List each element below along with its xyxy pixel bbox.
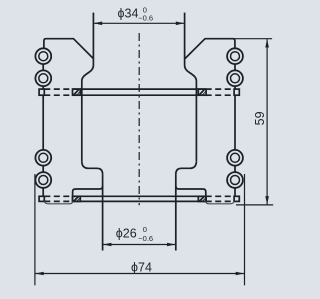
lower neck right edge + ext line for dim φ26 [175,174,177,250]
eyelet bottom-right lower [227,172,243,188]
wire: neck right edge + ext line for dim φ34 [184,13,186,66]
terminal lead mid-left [42,95,44,196]
clamp ear right [185,39,235,59]
lower neck left edge + ext line for dim φ26 [102,174,104,250]
top flange lower line solid [73,94,206,96]
top flange upper line hidden right [206,88,234,90]
svg-text:−0.6: −0.6 [138,234,153,243]
top flange lower line hidden right [206,94,234,96]
bottom flange lower line hidden left [44,200,72,202]
eyelet bottom-left lower [35,172,51,188]
body-to-neck step right [176,161,197,174]
top flange upper line hidden left [44,88,72,90]
terminal lead top-right [234,64,236,89]
wire: neck left edge + ext line for dim φ34 [92,13,94,66]
clamp step edge bottom-right [176,186,206,202]
clamp section hatch top-left [73,89,81,95]
clamp section hatch bottom-right [198,196,206,201]
body-to-neck step left [82,161,103,174]
svg-text:0: 0 [143,225,147,234]
neck S-curve right [185,66,197,82]
top flange lower line hidden left [44,94,72,96]
dimension φ74 extension line right [244,174,246,285]
clamp under-strap right [206,201,234,203]
eyelet top-right lower [227,70,243,86]
body left edge [81,81,83,161]
svg-text:ϕ74: ϕ74 [131,260,152,274]
terminal lead top-left [42,64,44,89]
clamp tab box top-left [39,89,44,95]
bottom flange upper line solid [73,195,206,197]
dimension φ74 extension line left [34,174,36,285]
dimension φ34 line with arrows [93,22,184,26]
bottom flange lower line solid [73,200,206,202]
clamp tab box bottom-right [234,196,239,201]
clamp tab box bottom-left [39,196,44,201]
clamp ear left [44,39,94,59]
clamp under-strap left [44,201,72,203]
eyelet top-right upper [227,48,243,64]
dimension 59 line with arrows [265,39,269,205]
terminal lead mid-right [234,95,236,196]
eyelet top-left lower [35,70,51,86]
bottom flange upper line hidden left [44,195,72,197]
dimension φ26 line with arrows [103,243,176,247]
body right edge [195,81,197,161]
eyelet bottom-right upper [227,150,243,166]
eyelet bottom-left upper [35,150,51,166]
dimension φ74 line with arrows [35,272,245,276]
svg-text:ϕ34: ϕ34 [118,6,139,20]
svg-text:−0.6: −0.6 [138,14,153,23]
dimension 59 extension line top [233,38,272,40]
bottom flange lower line hidden right [206,200,234,202]
clamp tab box top-right [234,89,239,95]
top flange upper line solid [73,88,206,90]
svg-text:ϕ26: ϕ26 [116,227,137,241]
svg-text:59: 59 [253,111,267,125]
eyelet top-left upper [35,48,51,64]
dimension 59 extension line bottom [236,204,273,206]
clamp section hatch bottom-left [73,196,81,201]
centerline [138,33,140,205]
clamp section hatch top-right [198,89,206,95]
clamp step edge bottom-left [73,186,103,202]
neck S-curve left [82,66,94,82]
bottom flange upper line hidden right [206,195,234,197]
